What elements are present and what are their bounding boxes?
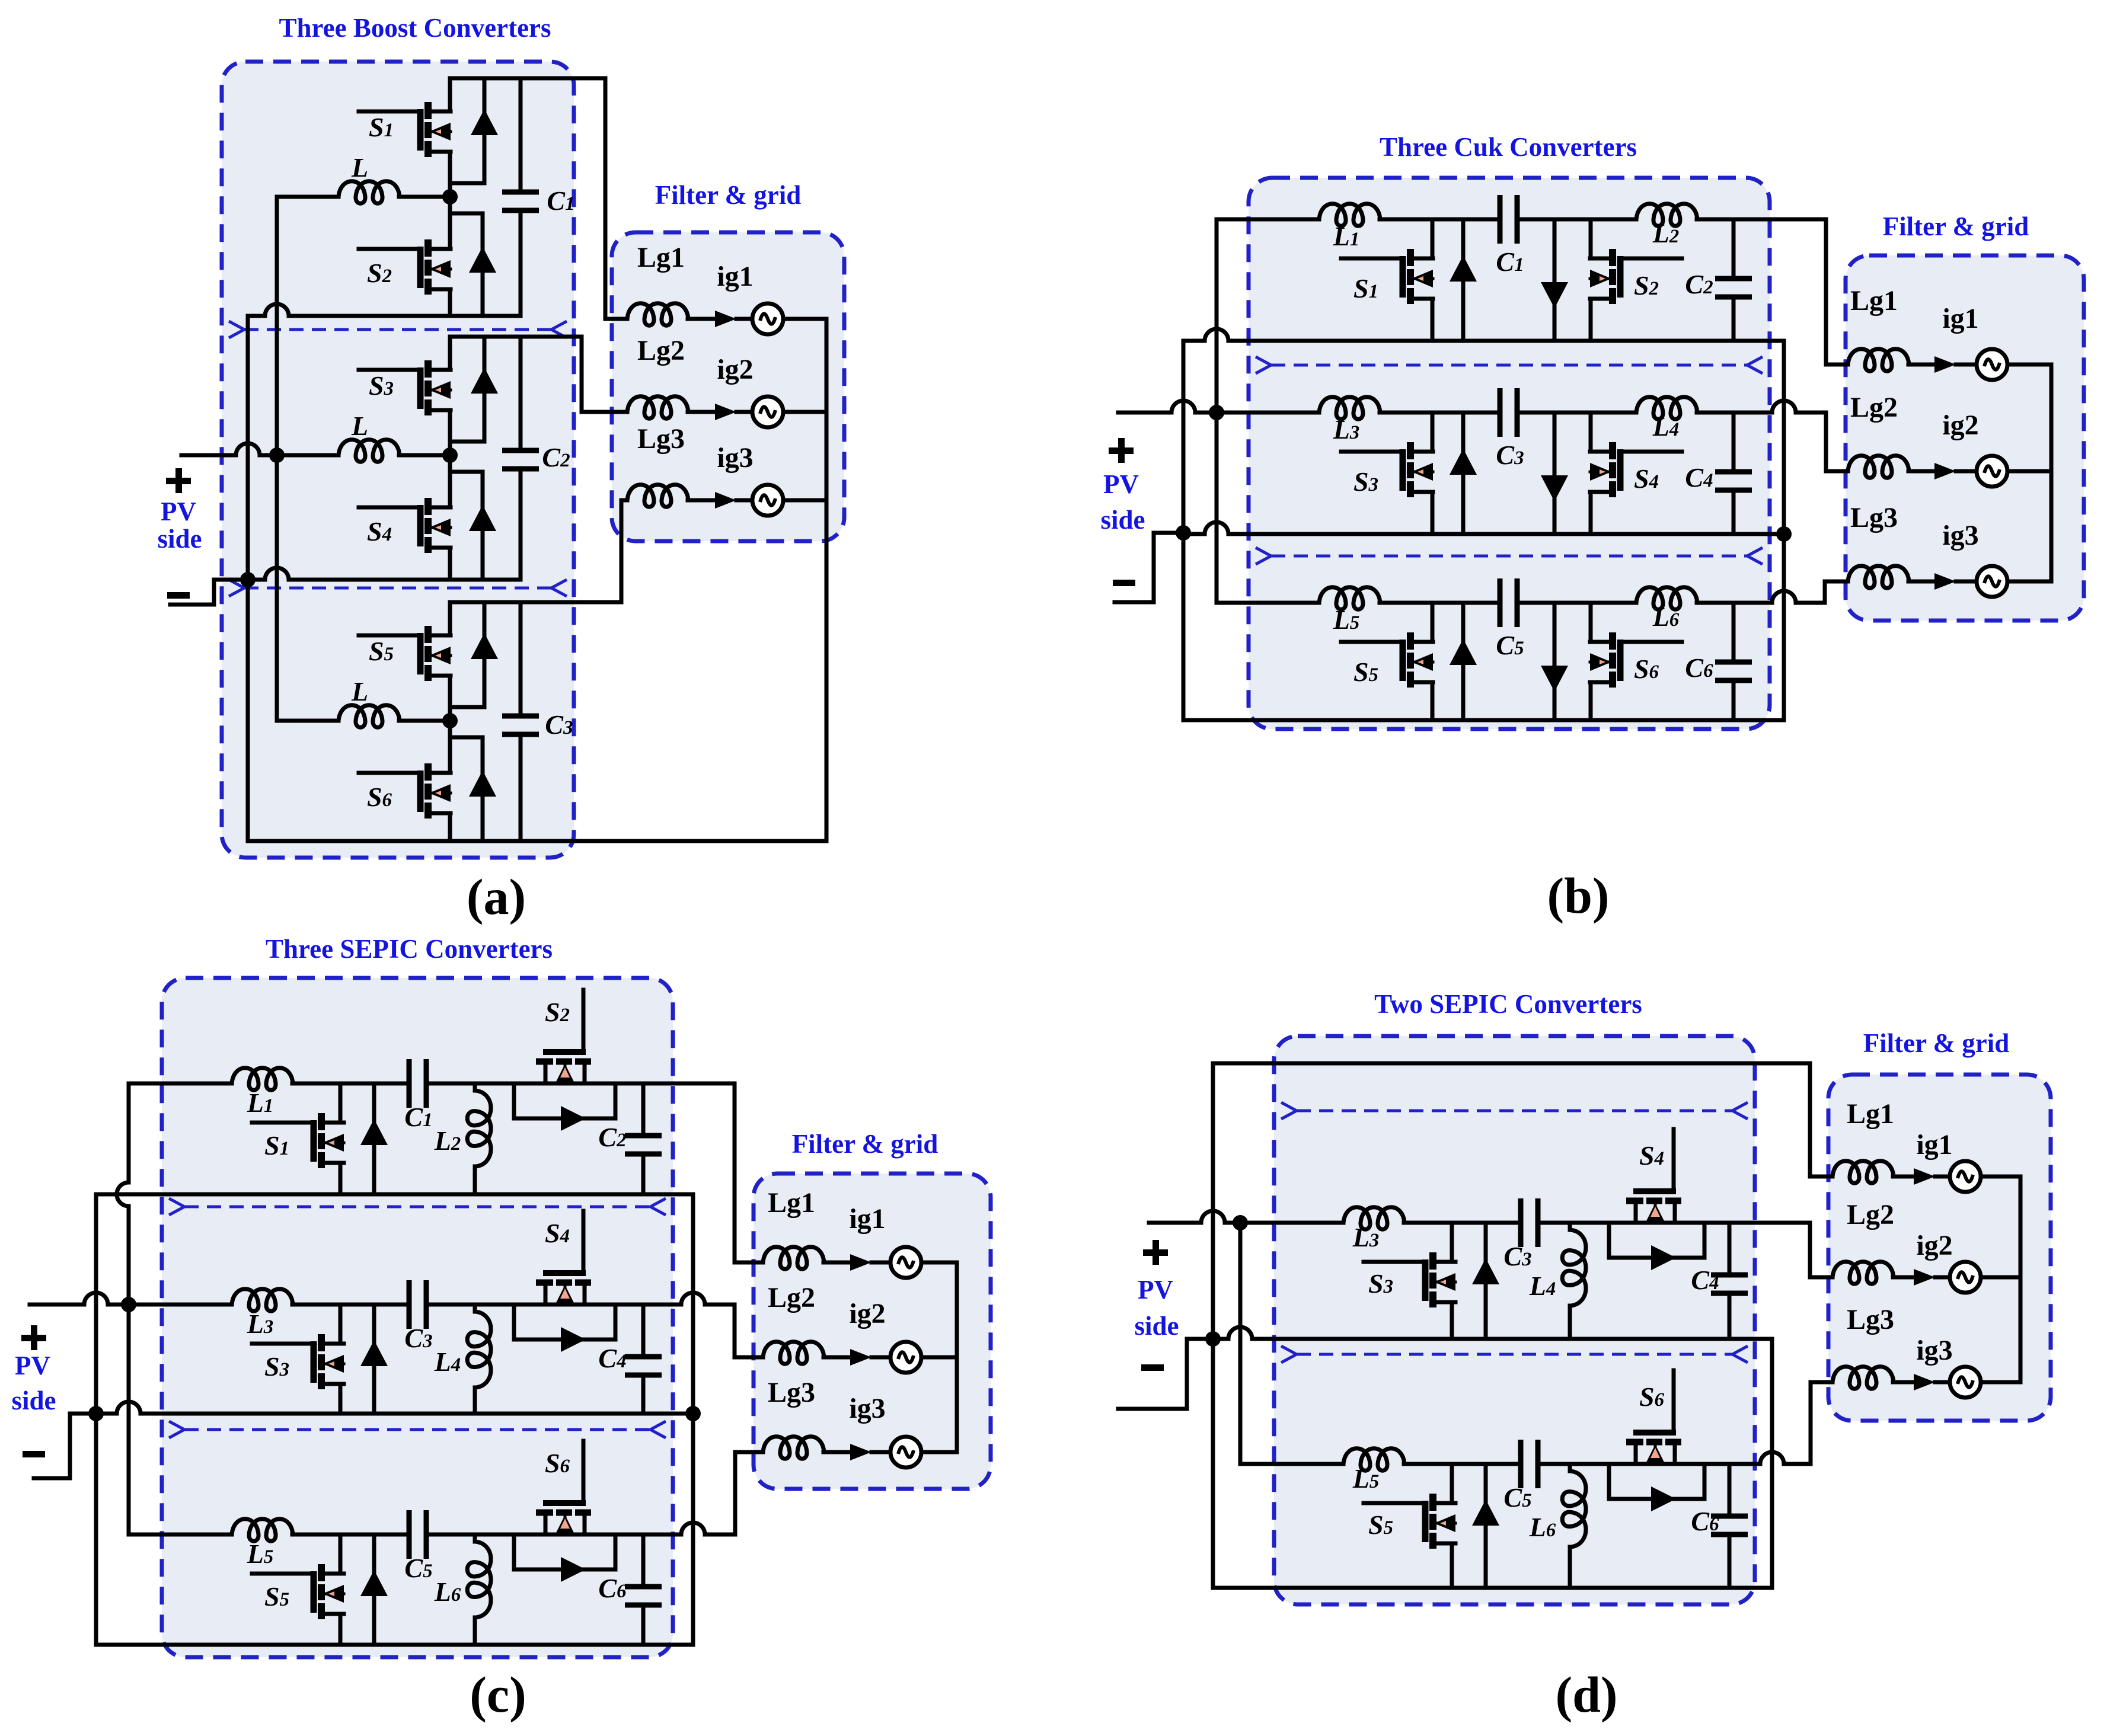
svg-text:PV: PV <box>15 1351 50 1380</box>
svg-text:PV: PV <box>161 497 196 526</box>
svg-text:ig3: ig3 <box>849 1393 885 1424</box>
svg-text:Lg2: Lg2 <box>1850 392 1898 423</box>
svg-text:Lg2: Lg2 <box>768 1282 815 1313</box>
svg-text:ig1: ig1 <box>1942 303 1978 334</box>
svg-text:Filter & grid: Filter & grid <box>1863 1028 2010 1058</box>
svg-text:ig2: ig2 <box>849 1298 885 1329</box>
svg-text:Lg1: Lg1 <box>637 242 685 273</box>
svg-text:Lg1: Lg1 <box>1850 285 1898 316</box>
svg-text:ig3: ig3 <box>717 442 753 474</box>
svg-text:ig3: ig3 <box>1916 1335 1952 1366</box>
svg-text:ig2: ig2 <box>717 354 753 385</box>
svg-text:(b): (b) <box>1547 867 1609 924</box>
svg-text:Three Boost Converters: Three Boost Converters <box>279 13 551 43</box>
svg-text:PV: PV <box>1138 1275 1173 1305</box>
svg-text:Lg3: Lg3 <box>637 423 685 455</box>
svg-text:Filter & grid: Filter & grid <box>792 1129 938 1159</box>
svg-text:Filter & grid: Filter & grid <box>655 180 802 210</box>
svg-text:Lg3: Lg3 <box>1847 1304 1894 1335</box>
svg-text:ig2: ig2 <box>1916 1230 1952 1261</box>
svg-text:L: L <box>351 152 368 183</box>
svg-text:side: side <box>11 1386 56 1415</box>
svg-text:Filter & grid: Filter & grid <box>1883 212 2029 241</box>
svg-text:ig1: ig1 <box>849 1203 885 1235</box>
svg-text:Lg2: Lg2 <box>637 335 685 366</box>
svg-text:(d): (d) <box>1555 1666 1617 1723</box>
svg-text:L: L <box>351 676 368 706</box>
svg-text:ig1: ig1 <box>1916 1129 1952 1160</box>
svg-text:Three Cuk Converters: Three Cuk Converters <box>1380 132 1637 162</box>
svg-text:side: side <box>157 524 202 554</box>
svg-text:Lg1: Lg1 <box>768 1187 815 1219</box>
svg-text:ig2: ig2 <box>1942 410 1978 441</box>
svg-text:side: side <box>1100 505 1145 535</box>
svg-text:ig3: ig3 <box>1942 520 1978 551</box>
svg-text:PV: PV <box>1103 469 1139 499</box>
svg-text:L: L <box>351 411 368 441</box>
svg-text:Lg3: Lg3 <box>768 1377 815 1408</box>
svg-text:side: side <box>1134 1311 1179 1341</box>
svg-text:Lg2: Lg2 <box>1847 1199 1894 1230</box>
svg-text:Two SEPIC Converters: Two SEPIC Converters <box>1374 989 1642 1019</box>
svg-text:Three SEPIC Converters: Three SEPIC Converters <box>266 934 553 964</box>
svg-text:(a): (a) <box>467 868 526 925</box>
svg-text:Lg3: Lg3 <box>1850 502 1898 533</box>
svg-text:ig1: ig1 <box>717 261 753 292</box>
svg-text:(c): (c) <box>470 1666 526 1723</box>
svg-text:Lg1: Lg1 <box>1847 1098 1894 1130</box>
